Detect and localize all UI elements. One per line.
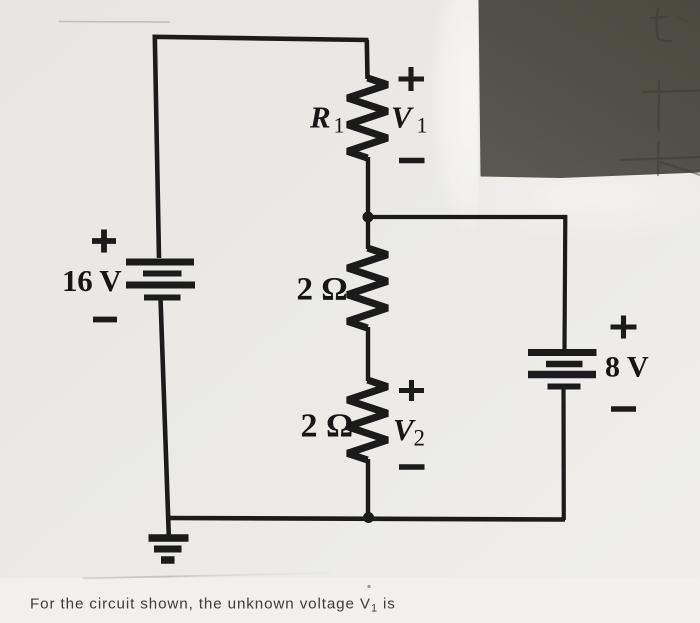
- svg-text:R: R: [309, 100, 331, 135]
- svg-text:16 V: 16 V: [62, 263, 122, 298]
- svg-text:1: 1: [417, 113, 428, 138]
- svg-text:1: 1: [334, 113, 345, 138]
- svg-text:8 V: 8 V: [605, 351, 649, 384]
- svg-text:For the circuit shown, the unk: For the circuit shown, the unknown volta…: [30, 596, 396, 615]
- svg-text:V: V: [391, 100, 414, 135]
- svg-text:2 Ω: 2 Ω: [297, 272, 348, 308]
- svg-text:2: 2: [414, 426, 426, 451]
- svg-text:2 Ω: 2 Ω: [301, 408, 354, 445]
